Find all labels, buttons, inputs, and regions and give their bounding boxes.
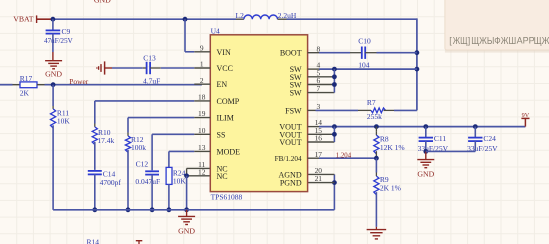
node FB junction [374, 156, 379, 161]
svg-text:1: 1 [200, 60, 204, 69]
svg-text:FB/1.204: FB/1.204 [275, 155, 302, 163]
wire ground bus [53, 209, 334, 211]
wire VBAT red segment [37, 18, 53, 20]
IC left pin numbers [198, 43, 206, 176]
node SW5 junction [332, 74, 337, 79]
svg-text:ILIM: ILIM [217, 114, 234, 123]
wire NC to bus [186, 176, 188, 210]
svg-text:COMP: COMP [217, 97, 240, 106]
svg-text:R7: R7 [367, 98, 376, 107]
svg-text:17.4k: 17.4k [97, 136, 114, 145]
wire C9 top [52, 19, 54, 30]
wire R12 to bus [127, 150, 129, 210]
svg-text:FSW: FSW [285, 106, 302, 115]
capacitor C12 0.047uF [135, 159, 160, 185]
svg-text:PGND: PGND [280, 179, 302, 188]
wire R11 top [52, 85, 54, 109]
svg-text:GND: GND [45, 69, 62, 78]
resistor R11 10K [50, 108, 70, 128]
node C12 bus junction [150, 207, 155, 212]
IC left pin names [217, 48, 241, 181]
svg-text:10K: 10K [173, 176, 187, 185]
node PGND junction [332, 180, 337, 185]
resistor R7 255k [358, 98, 394, 121]
svg-text:ЩЖ: ЩЖ [534, 36, 549, 47]
svg-text:18: 18 [198, 93, 206, 102]
port 9V [521, 112, 529, 127]
svg-text:GND: GND [94, 0, 111, 4]
svg-text:2: 2 [200, 76, 204, 85]
wire C14 to bus [94, 174, 96, 209]
node C11 ground junction [423, 149, 428, 154]
svg-text:C24: C24 [483, 134, 496, 143]
capacitor C10 104 [350, 37, 377, 70]
svg-text:4700pf: 4700pf [100, 178, 122, 187]
ground GND (C11) [417, 151, 434, 178]
resistor R17 2K [13, 74, 45, 98]
svg-text:C10: C10 [358, 37, 371, 46]
svg-text:U4: U4 [211, 26, 220, 35]
resistor R8 12K 1% [374, 134, 405, 154]
svg-text:47uF/25V: 47uF/25V [44, 36, 73, 45]
wire R9 to ground [375, 192, 377, 229]
resistor R9 2K 1% [374, 175, 401, 195]
node R8 junction [374, 124, 379, 129]
capacitor C13 4.7uF [143, 54, 161, 86]
node VBAT-C9 junction [51, 17, 56, 22]
svg-text:TPS61088: TPS61088 [211, 193, 243, 202]
wire R8 to FB [375, 151, 377, 158]
svg-text:2K 1%: 2K 1% [380, 183, 401, 192]
svg-text:C13: C13 [143, 54, 156, 63]
wire NC pins link [187, 168, 211, 175]
IC right pin names [275, 49, 302, 188]
wire VBAT rail [53, 18, 236, 20]
svg-text:21: 21 [315, 174, 323, 183]
svg-text:1.204: 1.204 [336, 152, 352, 159]
svg-text:13: 13 [198, 143, 206, 152]
wire VOUT connector [333, 127, 335, 142]
wire bus riser to PGND [333, 174, 335, 209]
wire C11 top [425, 127, 427, 138]
svg-text:L2: L2 [236, 11, 245, 20]
capacitor C24 33uF/25V [467, 134, 498, 153]
svg-text:10K: 10K [57, 117, 71, 126]
wire port to C13 [112, 67, 143, 69]
svg-text:VCC: VCC [217, 64, 233, 73]
svg-text:12: 12 [198, 167, 206, 176]
resistor R24 10K [166, 167, 186, 185]
capacitor C14 4700pf [88, 169, 122, 186]
node bus-BOOT junction [415, 50, 420, 55]
op-amp U1 body: IC U4 TPS61088 [210, 26, 307, 201]
svg-text:C12: C12 [136, 159, 149, 168]
ground GND (bus) [178, 210, 195, 236]
wire SW connector [333, 69, 335, 93]
svg-text:16: 16 [315, 134, 323, 143]
node C11 junction [423, 124, 428, 129]
inductor L2 2.2uH [236, 11, 297, 20]
svg-text:VBAT: VBAT [13, 15, 34, 24]
svg-text:GND: GND [178, 226, 195, 235]
ground (clipped, bottom) [136, 241, 143, 244]
svg-text:]: ] [468, 35, 471, 45]
node bus-SW junction [415, 67, 420, 72]
svg-text:R14: R14 [87, 238, 100, 244]
svg-text:0.047uF: 0.047uF [135, 177, 160, 186]
wire R11 to bus [52, 125, 54, 210]
wire C12 to bus [151, 175, 153, 210]
node SW6 junction [332, 82, 337, 87]
node SW4 junction [332, 67, 337, 72]
svg-text:MODE: MODE [217, 147, 241, 156]
svg-text:10: 10 [198, 126, 206, 135]
svg-text:C11: C11 [434, 134, 446, 143]
svg-text:4.7uF: 4.7uF [143, 76, 160, 85]
svg-text:255k: 255k [367, 112, 382, 121]
svg-text:SW: SW [290, 89, 302, 98]
node C14 bus junction [92, 207, 97, 212]
svg-text:12K 1%: 12K 1% [380, 143, 405, 152]
wire BOOT to C10 [319, 52, 350, 54]
tooltip overlay box [445, 0, 549, 53]
wire MODE [169, 151, 194, 167]
wire R8 top lead [375, 127, 377, 136]
wire C13 to VCC pin [161, 67, 195, 69]
net label 1.204 [336, 152, 352, 159]
net label GND (clipped at top) [94, 0, 111, 4]
wire right bus vertical [416, 18, 418, 110]
resistor R10 17.4k [92, 127, 114, 145]
wire C10 to bus [377, 52, 417, 54]
wire AGND PGND stubs [308, 174, 335, 182]
svg-text:2K: 2K [20, 88, 30, 97]
wire ILIM [128, 118, 194, 136]
node VOUT15 junction [332, 132, 337, 137]
node Power junction [51, 82, 56, 87]
ground GND (C9) [45, 61, 62, 79]
svg-text:19: 19 [198, 109, 206, 118]
wire C11 bottom [425, 141, 427, 151]
wire C24 top [474, 127, 476, 138]
IC left pin stubs [194, 52, 210, 152]
IC right pin stubs [308, 53, 335, 159]
capacitor C11 33uF/25V [418, 134, 449, 153]
wire Power rail [45, 84, 202, 86]
svg-text:ЩЖЫФЖШ: ЩЖЫФЖШ [471, 36, 516, 47]
node C24 junction [473, 124, 478, 129]
wire SS [152, 134, 194, 170]
svg-text:EN: EN [217, 80, 228, 89]
svg-text:ЖЩ: ЖЩ [453, 36, 468, 47]
svg-text:9V: 9V [522, 112, 530, 119]
svg-text:Power: Power [69, 77, 88, 86]
node R12 bus junction [126, 207, 131, 212]
resistor R12 100k [125, 135, 146, 152]
wire C9 to ground [52, 34, 54, 61]
svg-text:NC: NC [217, 172, 228, 181]
node R24 bus junction [167, 207, 172, 212]
resistor R14 (clipped) [87, 238, 100, 244]
node NC12 junction [184, 173, 189, 178]
svg-text:APP: APP [517, 35, 535, 45]
svg-text:9: 9 [200, 43, 204, 52]
svg-text:7: 7 [316, 84, 320, 93]
net label Power [69, 77, 88, 86]
svg-text:SS: SS [217, 130, 226, 139]
wire FB [319, 157, 376, 159]
svg-text:R17: R17 [20, 74, 33, 83]
wire SW rail [319, 68, 417, 70]
wire VIN branch [185, 19, 194, 52]
wire R10 to C14 [94, 142, 96, 170]
wire FSW to R7 [316, 109, 359, 111]
wire R7 to bus [394, 109, 417, 111]
node VOUT14 junction [332, 124, 337, 129]
svg-text:C9: C9 [62, 27, 71, 36]
node VBAT-VIN junction [183, 17, 188, 22]
node NC bus junction [184, 207, 189, 212]
svg-text:VIN: VIN [217, 48, 231, 57]
wire R24 to bus [168, 184, 170, 209]
wire COMP [95, 101, 195, 127]
wire R9 top [375, 158, 377, 176]
svg-text:100k: 100k [131, 143, 146, 152]
wire VOUT rail [319, 126, 525, 128]
svg-text:BOOT: BOOT [280, 49, 302, 58]
power port (VCC rail) [97, 61, 112, 74]
svg-text:VOUT: VOUT [279, 138, 301, 147]
IC right pin numbers [315, 44, 323, 183]
capacitor C9 [44, 27, 73, 45]
wire L2 to right bus [287, 18, 417, 20]
wire C24 to C11 ground [426, 141, 476, 151]
svg-text:GND: GND [417, 169, 434, 178]
ground (R9) [367, 230, 387, 239]
port VBAT [13, 15, 36, 24]
wire Power left [0, 84, 13, 86]
